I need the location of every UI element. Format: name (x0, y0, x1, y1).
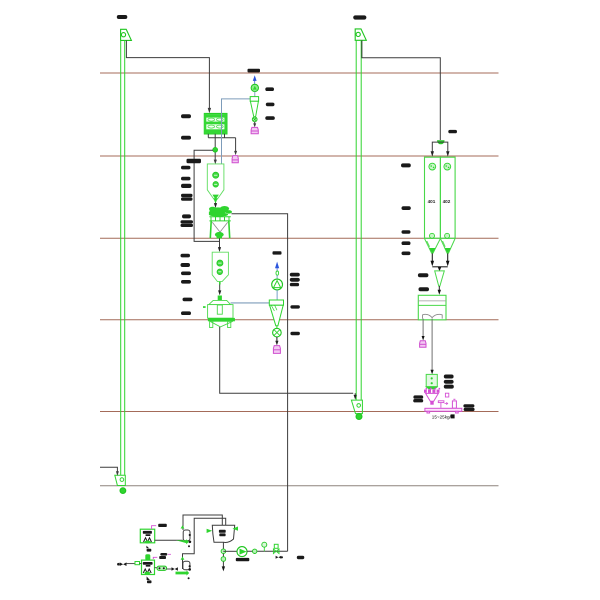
packing platform (magenta) (425, 408, 462, 413)
exhaust blue arrow above fan V2 (275, 262, 279, 271)
floor line level5 (100, 411, 499, 413)
text label exhaust above fan V2 (273, 251, 282, 254)
bag weight text 15~25kg (432, 414, 455, 419)
weigh table (magenta) (438, 393, 449, 408)
text label slurry pump (236, 558, 250, 561)
product bin (418, 295, 446, 320)
granulator discharge wire (219, 238, 221, 247)
product wire FBD to elevator E2 (220, 327, 356, 396)
T1 bottom motor (146, 546, 151, 552)
granulator vessel rim (209, 217, 230, 221)
bucket elevator E2 boot (351, 400, 362, 414)
wire hopper H2 to fluid bed dryer (218, 285, 221, 296)
fan V2 (272, 275, 283, 300)
flow splitter above columns (431, 141, 450, 157)
dissolving tank T1 (140, 529, 154, 543)
surge hopper H1 (207, 164, 224, 200)
floor line level1 (100, 72, 499, 74)
exhaust blue arrow above fan V1 (253, 75, 257, 84)
storage column 402 (440, 157, 455, 238)
rotary valve on mill discharge (213, 147, 218, 152)
bucket elevator E2 legs (356, 40, 361, 400)
filter F1 riser wire (183, 515, 222, 530)
mill outlet wires (208, 134, 235, 161)
roller mill crusher (204, 114, 227, 134)
T2 transfer pump (155, 566, 178, 571)
blue duct FBD to cyclone K2 (231, 302, 270, 304)
floor line level6 (100, 485, 499, 487)
arrow into screen funnel (438, 267, 442, 271)
granulator mixer top motor assembly (209, 206, 232, 217)
dust bin B2 (magenta) (251, 127, 258, 133)
filter F2 riser wire (183, 518, 226, 569)
bucket elevator E1 boot (115, 475, 126, 485)
mill recycle wire (194, 150, 219, 241)
F2 riser flow arrow (green) (181, 557, 185, 560)
surge hopper H2 (212, 252, 228, 284)
text label elevator E2 (353, 15, 366, 19)
column 401 cone (425, 239, 441, 254)
wire bin to packing hopper (431, 319, 434, 375)
cyclone K1 rotary valve (252, 117, 257, 122)
cyclone K1 (250, 97, 258, 117)
blue duct hopper to cyclone K1 (222, 99, 251, 164)
text labels left equipment column (181, 114, 202, 315)
valve above fan V2 (276, 271, 279, 275)
packing funnel (magenta) (426, 393, 439, 404)
floor line level2 (100, 155, 499, 157)
reject bin B1 (magenta) (232, 156, 238, 163)
T1 water inlet label line (magenta) (152, 524, 167, 529)
fan V1 (251, 84, 258, 96)
cyclone K2 (269, 300, 283, 326)
F1 riser flow arrow (green) (181, 525, 185, 528)
T2 feed inlet label line (magenta) (153, 556, 166, 559)
slurry storage tank (207, 525, 238, 542)
floor line level3 (100, 237, 499, 239)
arrow into product bin (438, 286, 441, 295)
T2 bottom motor (147, 576, 152, 583)
filter F1 (176, 530, 191, 547)
text labels right of cyclone K1 (265, 87, 275, 120)
bucket elevator E1 boot pulley (120, 488, 126, 494)
pump discharge line with valves (247, 542, 288, 559)
arrow into E2 boot (354, 395, 357, 400)
packing machine feeder row (magenta) (424, 388, 440, 393)
granulator vessel body (210, 221, 229, 239)
T2 left feed valve (117, 562, 141, 567)
slurry pump (223, 547, 247, 557)
floor line level4 (100, 319, 499, 321)
wire bin to reject bin B4 (422, 319, 425, 341)
wire E1 head to roller mill (126, 41, 211, 114)
text labels left of columns (401, 163, 411, 255)
dust bin B3 (magenta) (273, 346, 280, 354)
packing hopper (425, 374, 439, 389)
svg-text:402: 402 (443, 199, 451, 204)
text label near splitter (448, 130, 457, 133)
bucket elevator E2 head (355, 29, 366, 40)
bucket elevator E2 boot pulley (356, 414, 362, 420)
arrow into dust bin B3 (275, 337, 278, 345)
wires columns to collector (432, 253, 447, 266)
wire E2 head to splitter (362, 40, 440, 140)
text labels left of screen funnel (418, 273, 429, 291)
bucket elevator E1 head (121, 29, 132, 40)
text labels left of packing machine (413, 395, 423, 402)
text label exhaust above fan V1 (248, 69, 261, 73)
text label elevator E1 (117, 15, 128, 19)
column 401 bottom sight glass (430, 233, 435, 238)
reject bin B4 (magenta) (420, 341, 426, 348)
text labels right of platform (463, 404, 474, 411)
fluid bed dryer FBD (203, 296, 235, 328)
bucket elevator E1 legs (121, 40, 125, 475)
bag stand (magenta) (452, 399, 456, 408)
arrow into dust bin B2 (253, 122, 256, 128)
liquid feed line from pump riser to granulator (232, 214, 288, 552)
dissolving tank T2 (142, 554, 155, 574)
storage column 401 (425, 157, 441, 238)
text label dosing note (160, 553, 171, 556)
arrow into reject bin B1 (234, 151, 237, 155)
filter F2 (176, 561, 192, 579)
column 402 top sight glass (444, 163, 451, 170)
column 401 top sight glass (429, 163, 436, 170)
svg-text:401: 401 (428, 199, 436, 204)
screen funnel (435, 271, 445, 286)
text labels right of packing hopper (444, 375, 454, 389)
tank outlet valves (221, 542, 226, 571)
column 402 cone (440, 239, 455, 254)
feed line into elevator E1 (100, 467, 119, 476)
arrow into hopper H2 (218, 247, 221, 252)
svg-text:15~25kg/: 15~25kg/ (432, 414, 452, 419)
arrow into hopper H1 (214, 160, 217, 165)
column 402 bottom sight glass (445, 233, 450, 238)
text label pipe spec near riser (297, 556, 305, 559)
tank T1 outlet wire to filter F1 (155, 539, 183, 541)
wire hopper H1 to granulator (213, 198, 217, 208)
text labels right of fan V2 and cyclone K2 (290, 273, 300, 336)
cyclone K2 rotary valve (273, 326, 282, 337)
